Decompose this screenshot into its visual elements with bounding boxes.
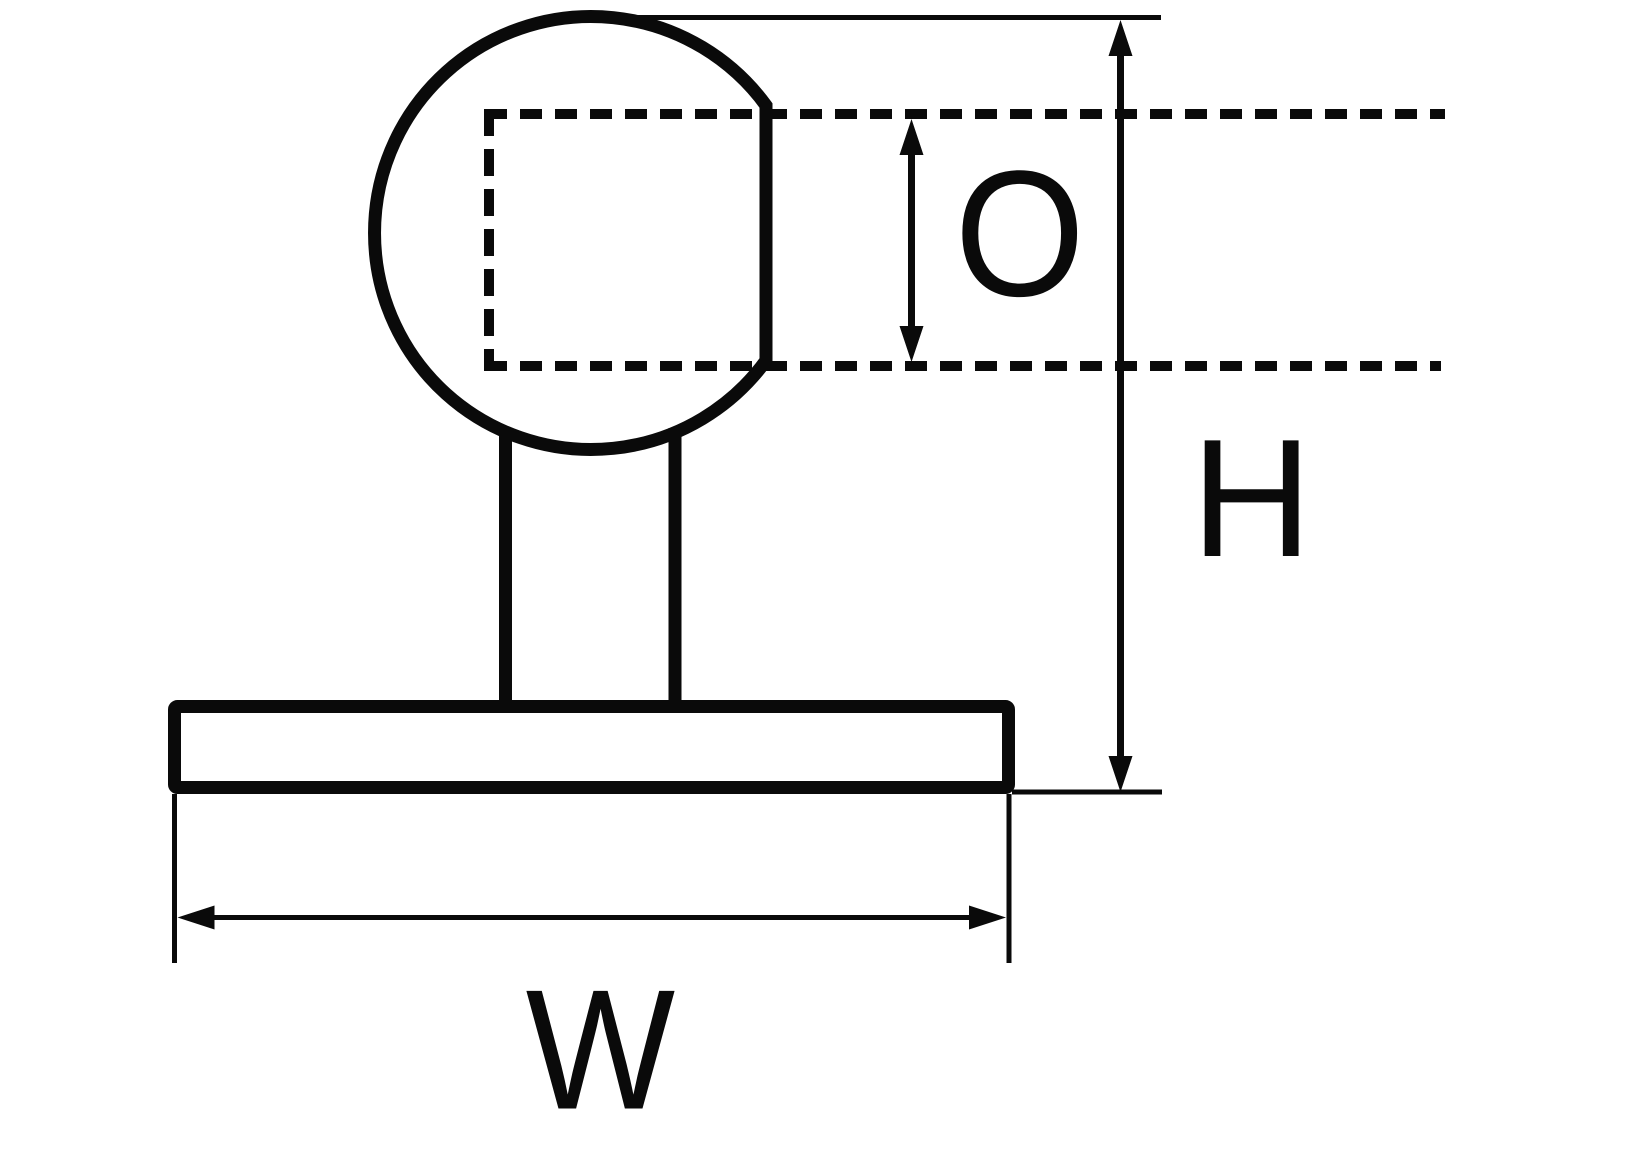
svg-text:O: O xyxy=(954,133,1085,333)
svg-text:W: W xyxy=(526,954,675,1145)
svg-text:H: H xyxy=(1191,404,1312,592)
